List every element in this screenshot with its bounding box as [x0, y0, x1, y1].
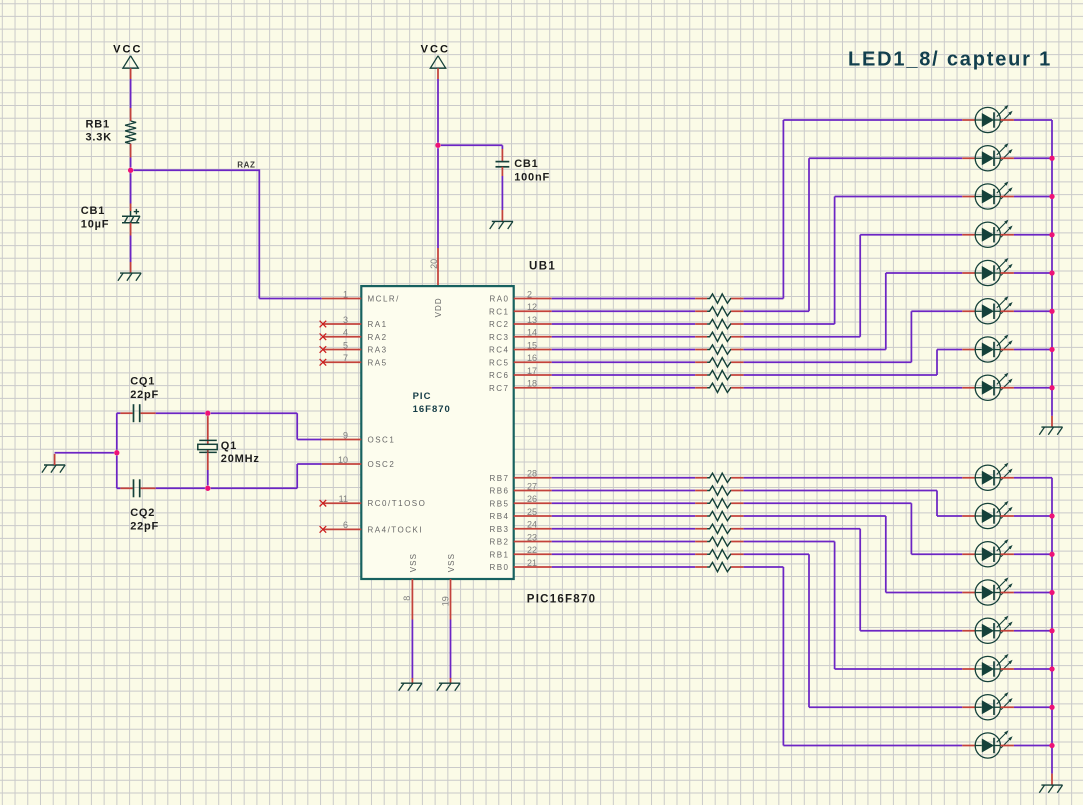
wire RB4 pin to resistor [552, 515, 696, 517]
capacitor CB1 100nF [496, 158, 550, 183]
wire RB0 pin to resistor [552, 566, 696, 568]
pin 2 RA0 [489, 289, 551, 303]
wire LED5 to bus [1014, 272, 1052, 274]
wire RC1 resistor to LED2 [744, 158, 963, 311]
ground (pin 19) [437, 683, 460, 691]
resistor R2 [695, 307, 743, 316]
wire LED6 to bus [1014, 310, 1052, 312]
wire RA0 pin to resistor [552, 298, 696, 300]
wire RB6 resistor to LED10 [744, 491, 963, 517]
svg-text:RB7: RB7 [489, 474, 509, 483]
LED D4 [962, 220, 1014, 248]
svg-text:22: 22 [527, 545, 537, 555]
wire CQ1 to OSC1 node [141, 412, 205, 414]
wire RC5 pin to resistor [552, 361, 696, 363]
svg-text:12: 12 [527, 302, 537, 312]
label UB1 [529, 261, 556, 273]
svg-text:26: 26 [527, 494, 537, 504]
wire RA0 resistor to LED1 [744, 120, 963, 299]
wire RB7 pin to resistor [552, 477, 696, 479]
svg-text:11: 11 [339, 494, 348, 504]
svg-text:20: 20 [429, 259, 439, 269]
pin 8 VSS wire [402, 579, 412, 683]
wire RC7 resistor to LED8 [744, 387, 963, 389]
ground (below CB1) [118, 273, 141, 281]
svg-text:RB3: RB3 [489, 525, 509, 534]
pin 5 RA3 [320, 340, 388, 354]
wire crystal to OSC2 node [207, 452, 209, 485]
wire to CQ2 [117, 487, 133, 489]
resistor R10 [695, 486, 743, 495]
svg-text:28: 28 [527, 469, 537, 479]
pin 16 RC5 [489, 353, 552, 367]
svg-text:VCC: VCC [421, 44, 450, 56]
capacitor CQ1 22pF [130, 376, 159, 423]
wire RB5 resistor to LED11 [744, 503, 963, 554]
wire RB1 pin to resistor [552, 553, 696, 555]
wire net RAZ horizontal [134, 161, 260, 171]
wire ground to rail node [55, 453, 114, 465]
svg-text:VCC: VCC [113, 44, 142, 56]
wire RB6 pin to resistor [552, 490, 696, 492]
wire VDD node to pin 20 [437, 148, 439, 248]
crystal Q1 20MHz [198, 440, 260, 465]
capacitor CB1 10uF [81, 205, 140, 230]
LED D10 [962, 501, 1014, 529]
pin 22 RB1 [489, 545, 551, 559]
svg-text:RB1: RB1 [86, 119, 110, 131]
LED D7 [962, 334, 1014, 362]
pin 21 RB0 [489, 558, 551, 572]
svg-text:100nF: 100nF [514, 172, 550, 184]
resistor R11 [695, 499, 743, 508]
svg-text:27: 27 [527, 481, 537, 491]
node bus junction LED7 [1049, 347, 1054, 352]
svg-text:RB5: RB5 [489, 499, 509, 508]
pin 23 RB2 [489, 532, 551, 546]
resistor R4 [695, 332, 743, 341]
wire node to CB1 [130, 173, 132, 211]
LED D8 [962, 373, 1014, 401]
wire node to crystal [207, 416, 209, 452]
wire LED16 to bus [1014, 745, 1052, 747]
wire RB0 resistor to LED16 [744, 567, 963, 746]
wire LED13 to bus [1014, 630, 1052, 632]
node bus junction LED14 [1049, 666, 1054, 671]
resistor R14 [695, 537, 743, 546]
LED D6 [962, 296, 1014, 324]
wire CB1 to ground [130, 223, 132, 273]
pin 25 RB4 [489, 507, 551, 521]
node bus junction LED2 [1049, 156, 1054, 161]
svg-text:RC4: RC4 [489, 346, 510, 355]
wire rail vertical [116, 413, 118, 488]
svg-text:CQ1: CQ1 [130, 376, 155, 388]
pin 24 RB3 [489, 520, 551, 534]
node OSC1 junction [205, 411, 210, 416]
svg-text:4: 4 [343, 328, 348, 338]
svg-text:21: 21 [527, 558, 537, 568]
ground (crystal) [42, 465, 65, 473]
svg-text:RB0: RB0 [489, 563, 509, 572]
svg-text:CB1: CB1 [514, 158, 538, 170]
node bus junction LED15 [1049, 705, 1054, 710]
ground (pin 8) [399, 683, 422, 691]
pin 27 RB6 [489, 481, 551, 495]
resistor R7 [695, 370, 743, 379]
title LED1_8/ capteur 1 [848, 49, 1052, 71]
svg-text:PIC: PIC [413, 391, 432, 402]
pin 28 RB7 [489, 469, 551, 483]
svg-text:RAZ: RAZ [237, 161, 255, 170]
pin 1 MCLR/ [322, 289, 400, 303]
wire OSC1 node to chip [211, 413, 322, 439]
svg-text:6: 6 [343, 520, 348, 530]
svg-text:10: 10 [338, 455, 348, 465]
wire RC5 resistor to LED6 [744, 311, 963, 362]
LED D2 [962, 143, 1014, 171]
pin 17 RC6 [489, 366, 552, 380]
node bus junction LED8 [1049, 385, 1054, 390]
wire RB1 to node RAZ [130, 144, 132, 168]
wire RC3 resistor to LED4 [744, 235, 963, 337]
svg-text:17: 17 [527, 366, 537, 376]
resistor R6 [695, 358, 743, 367]
wire VCC to VDD node [437, 68, 439, 142]
wire RB4 resistor to LED12 [744, 516, 963, 593]
svg-text:RC5: RC5 [489, 358, 510, 367]
LED D14 [962, 654, 1014, 682]
wire RC6 pin to resistor [552, 374, 696, 376]
svg-text:RA4/TOCKI: RA4/TOCKI [368, 525, 424, 534]
pin 14 RC3 [489, 328, 552, 342]
wire LED9 to bus [1014, 477, 1052, 479]
wire LED4 to bus [1014, 234, 1052, 236]
svg-text:RA3: RA3 [368, 346, 388, 355]
LED D12 [962, 577, 1014, 605]
resistor R9 [695, 473, 743, 482]
LED D16 [962, 730, 1014, 758]
pin 3 RA1 [320, 315, 388, 329]
wire RC4 pin to resistor [552, 349, 696, 351]
svg-text:16: 16 [527, 353, 537, 363]
svg-text:20MHz: 20MHz [221, 453, 260, 465]
pin 9 OSC1 [322, 430, 395, 444]
svg-text:15: 15 [527, 340, 537, 350]
wire RB3 pin to resistor [552, 528, 696, 530]
svg-text:8: 8 [402, 596, 412, 601]
svg-text:5: 5 [343, 340, 348, 350]
capacitor CQ2 22pF [130, 479, 159, 532]
svg-text:RB6: RB6 [489, 487, 509, 496]
pin 7 RA5 [320, 353, 388, 367]
resistor R1 [695, 294, 743, 303]
wire RB1 resistor to LED15 [744, 554, 963, 707]
resistor R15 [695, 550, 743, 559]
wire RC7 pin to resistor [552, 387, 696, 389]
node bus junction LED6 [1049, 309, 1054, 314]
svg-text:RB1: RB1 [489, 550, 509, 559]
svg-text:VDD: VDD [434, 297, 443, 317]
ground (top bus) [1039, 427, 1062, 435]
LED D9 [962, 463, 1014, 491]
wire CQ2 to OSC2 node [141, 487, 205, 489]
node bus junction LED13 [1049, 628, 1054, 633]
wire LED3 to bus [1014, 196, 1052, 198]
wire LED15 to bus [1014, 706, 1052, 708]
node bus junction LED11 [1049, 552, 1054, 557]
wire LED8 to bus [1014, 387, 1052, 389]
svg-text:CQ2: CQ2 [130, 507, 155, 519]
svg-text:UB1: UB1 [529, 261, 556, 273]
resistor R16 [695, 562, 743, 571]
pin 26 RB5 [489, 494, 551, 508]
svg-text:RB4: RB4 [489, 512, 509, 521]
resistor R3 [695, 319, 743, 328]
pin 18 RC7 [489, 379, 552, 393]
pin 10 OSC2 [322, 455, 395, 469]
node bus junction LED10 [1049, 513, 1054, 518]
wire to CQ1 [117, 412, 133, 414]
svg-text:MCLR/: MCLR/ [368, 295, 400, 304]
svg-text:22pF: 22pF [130, 520, 159, 532]
svg-text:24: 24 [527, 520, 537, 530]
wire LED14 to bus [1014, 668, 1052, 670]
svg-text:23: 23 [527, 532, 537, 542]
label PIC16F870 [527, 593, 596, 605]
resistor R12 [695, 511, 743, 520]
node bus junction LED4 [1049, 232, 1054, 237]
node RAZ junction [128, 168, 133, 173]
svg-text:RC2: RC2 [489, 320, 510, 329]
svg-text:RC6: RC6 [489, 371, 510, 380]
LED D3 [962, 181, 1014, 209]
ground (bottom bus) [1039, 785, 1062, 793]
node bus junction LED16 [1049, 743, 1054, 748]
wire LED12 to bus [1014, 592, 1052, 594]
svg-text:RB2: RB2 [489, 538, 509, 547]
pin VDD label (rotated) [434, 297, 443, 317]
wire cathode bus (bottom group) [1051, 478, 1053, 785]
svg-text:25: 25 [527, 507, 537, 517]
wire RC2 pin to resistor [552, 323, 696, 325]
wire RC2 resistor to LED3 [744, 197, 963, 325]
wire CB1 100nF to ground [501, 167, 503, 222]
node OSC2 junction [205, 486, 210, 491]
wire LED1 to bus [1014, 119, 1052, 121]
ground (below CB1 100nF) [490, 221, 513, 229]
node crystal rail junction [114, 450, 119, 455]
wire LED10 to bus [1014, 515, 1052, 517]
svg-text:LED1_8/ capteur 1: LED1_8/ capteur 1 [848, 49, 1052, 71]
svg-text:7: 7 [343, 353, 348, 363]
svg-text:14: 14 [527, 328, 537, 338]
wire cathode bus (top group) [1051, 120, 1053, 427]
wire RC1 pin to resistor [552, 310, 696, 312]
svg-text:18: 18 [527, 379, 537, 389]
resistor R8 [695, 383, 743, 392]
op IC UB1 PIC16F870 body [361, 286, 513, 579]
node bus junction LED12 [1049, 590, 1054, 595]
wire VDD node to CB1 100nF [441, 145, 503, 161]
svg-text:RC0/T1OSO: RC0/T1OSO [368, 499, 427, 508]
svg-text:Q1: Q1 [221, 440, 237, 452]
wire RC3 pin to resistor [552, 336, 696, 338]
wire RB7 resistor to LED9 [744, 477, 963, 479]
pin 12 RC1 [489, 302, 552, 316]
wire VCC to RB1 [130, 68, 132, 121]
svg-text:3: 3 [343, 315, 348, 325]
wire RB3 resistor to LED13 [744, 529, 963, 631]
svg-text:RC1: RC1 [489, 307, 510, 316]
wire LED11 to bus [1014, 553, 1052, 555]
LED D11 [962, 539, 1014, 567]
wire OSC2 node to chip [211, 464, 322, 488]
LED D13 [962, 616, 1014, 644]
svg-text:3.3K: 3.3K [86, 132, 112, 144]
wire RC4 resistor to LED5 [744, 273, 963, 350]
resistor R13 [695, 524, 743, 533]
power VCC terminal (chip) [421, 44, 450, 69]
wire net RAZ vertical [258, 169, 260, 298]
svg-text:RC3: RC3 [489, 333, 510, 342]
svg-text:13: 13 [527, 315, 537, 325]
svg-text:22pF: 22pF [130, 389, 159, 401]
svg-text:VSS: VSS [447, 553, 456, 572]
wire LED2 to bus [1014, 157, 1052, 159]
resistor RB1 [86, 119, 137, 144]
svg-text:OSC1: OSC1 [368, 436, 396, 445]
pin 20 VDD [429, 248, 439, 286]
LED D5 [962, 258, 1014, 286]
pin 6 RA4/TOCKI [320, 520, 423, 534]
pin 4 RA2 [320, 328, 388, 342]
svg-text:CB1: CB1 [81, 205, 105, 217]
svg-text:16F870: 16F870 [413, 404, 451, 415]
wire RAZ to MCLR pin [259, 298, 322, 300]
LED D15 [962, 692, 1014, 720]
svg-text:RA0: RA0 [489, 295, 509, 304]
node bus junction LED5 [1049, 270, 1054, 275]
svg-text:19: 19 [440, 596, 450, 606]
svg-text:9: 9 [343, 430, 348, 440]
svg-text:1: 1 [343, 289, 348, 299]
pin 19 VSS wire [440, 579, 450, 683]
wire RB2 resistor to LED14 [744, 542, 963, 670]
svg-text:VSS: VSS [409, 553, 418, 572]
pin 13 RC2 [489, 315, 552, 329]
wire RB2 pin to resistor [552, 541, 696, 543]
pin VSS labels (rotated) [409, 553, 456, 572]
svg-text:10µF: 10µF [81, 219, 110, 231]
wire LED7 to bus [1014, 349, 1052, 351]
resistor R5 [695, 345, 743, 354]
svg-text:RA2: RA2 [368, 333, 388, 342]
wire RC6 resistor to LED7 [744, 350, 963, 376]
node VDD junction [435, 143, 440, 148]
node bus junction LED3 [1049, 194, 1054, 199]
pin 11 RC0/T1OSO [320, 494, 427, 508]
pin 15 RC4 [489, 340, 552, 354]
wire RB5 pin to resistor [552, 502, 696, 504]
svg-text:RA5: RA5 [368, 358, 388, 367]
svg-text:RA1: RA1 [368, 320, 388, 329]
svg-text:PIC16F870: PIC16F870 [527, 593, 596, 605]
power VCC terminal (left) [113, 44, 142, 69]
svg-text:RC7: RC7 [489, 384, 510, 393]
svg-text:OSC2: OSC2 [368, 460, 396, 469]
svg-text:2: 2 [527, 289, 532, 299]
LED D1 [962, 105, 1014, 133]
